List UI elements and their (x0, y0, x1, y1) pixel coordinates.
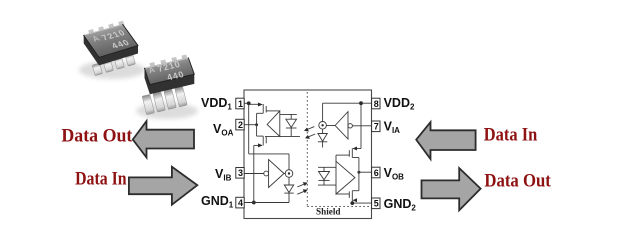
wire bottom rail (265, 135, 300, 137)
wire apex to cs (326, 125, 335, 127)
buffer U4 input bubble (264, 171, 269, 176)
wire VDD1 to cs (249, 153, 289, 155)
photodiode D1 top rail (280, 113, 297, 115)
wire VDD to PMOS source (357, 148, 361, 150)
NMOS Q4 source arrow (353, 198, 358, 202)
wire gate to amp top (336, 154, 349, 156)
svg-text:8: 8 (374, 99, 379, 109)
arrow right-top (points left) (416, 122, 475, 159)
LED D3 cathode bar (284, 192, 293, 194)
wire cs to LED (288, 177, 290, 185)
PMOS Q3 gate bar (348, 150, 350, 157)
NMOS Q4 gate bar (348, 191, 350, 198)
wire apex to cs (284, 173, 285, 175)
junction node pin8 (359, 101, 363, 105)
svg-text:Data In: Data In (75, 169, 127, 190)
wire gate to amp top (266, 110, 280, 112)
shield dashed line (307, 206, 370, 208)
pin 3 box (236, 168, 244, 179)
pin 8 box (372, 98, 380, 109)
IC photo package U2 (bottom chip) (136, 54, 198, 119)
junction node pin5 (350, 201, 354, 205)
photodiode D4 triangle (319, 172, 330, 180)
svg-text:Data Out: Data Out (484, 171, 551, 192)
wire LED down (322, 142, 324, 148)
light arrow B1 (297, 184, 305, 187)
svg-text:Data In: Data In (484, 125, 538, 146)
pin 6 box (372, 167, 380, 178)
wire pin3 (244, 173, 264, 175)
pin 7 box (372, 121, 380, 132)
channel A input stage (top-right) (318, 103, 372, 148)
wire LED to gnd rail (288, 193, 290, 202)
PMOS Q3 channel bar (351, 148, 353, 157)
wire VDD2 feed vertical (360, 103, 362, 148)
junction node gnd1 (252, 201, 256, 205)
wire pin2 VOA (244, 124, 257, 126)
svg-text:6: 6 (374, 168, 379, 178)
PMOS Q1 source arrow (258, 103, 263, 107)
buffer U3 (input A) (335, 112, 348, 139)
wire pin6 VOB (359, 171, 372, 173)
wire pin4 gnd rail (244, 202, 289, 204)
isolation barrier (dashed) (306, 92, 308, 207)
LED D3 triangle (284, 185, 293, 193)
wire gnd vertical (253, 145, 255, 202)
light arrow A1 (306, 127, 314, 130)
LED D2 cathode bar (318, 141, 327, 143)
pin 5 box (372, 198, 380, 209)
wire pin8 rail (323, 102, 372, 104)
svg-text:5: 5 (374, 199, 379, 209)
wire source to pin5 (351, 200, 353, 203)
wire pin7 (352, 125, 371, 127)
PMOS Q3 source arrow (353, 147, 358, 151)
buffer U3 input bubble (348, 124, 352, 128)
wire output node vertical (256, 113, 258, 136)
buffer U4 (input B) (269, 160, 284, 188)
current source I2 (285, 170, 293, 178)
wire output node vertical (358, 158, 360, 191)
svg-text:Data Out: Data Out (61, 126, 133, 147)
wire drain bottom (257, 135, 264, 137)
arrow right-bottom (points right) (422, 168, 481, 210)
wire stage gnd rail (254, 144, 258, 146)
IC body outline (244, 90, 372, 219)
PMOS Q1 channel bar (262, 104, 264, 113)
svg-text:2: 2 (238, 120, 243, 130)
wire pin1 (244, 102, 249, 104)
light arrow A2 (307, 134, 315, 137)
op-amp A1 (left receiver) (267, 111, 280, 136)
junction node out A (255, 123, 258, 126)
channel B input stage (bottom-left) (244, 154, 294, 203)
photodiode D4 top rail (318, 166, 336, 168)
svg-text:3: 3 (238, 168, 243, 178)
svg-text:1: 1 (238, 99, 243, 109)
PMOS Q1 gate bar (265, 106, 267, 113)
wire drain bottom (352, 190, 359, 192)
current source I1 dot (321, 124, 323, 126)
NMOS Q2 gate bar (265, 137, 267, 144)
LED D2 triangle (318, 134, 327, 142)
NMOS Q4 channel bar (351, 191, 353, 200)
svg-text:7: 7 (374, 122, 379, 132)
NMOS Q2 source arrow (258, 143, 263, 147)
wire cs to LED (322, 129, 324, 133)
channel B output stage (bottom-right) (318, 148, 372, 203)
arrow left-bottom (points right) (129, 167, 197, 205)
svg-text:4: 4 (238, 198, 243, 208)
wire gate to amp bottom (336, 193, 349, 195)
junction node pin1 (247, 101, 251, 105)
light arrow B2 (297, 191, 305, 194)
wire drain top (352, 157, 359, 159)
photodiode D1 triangle (286, 119, 297, 127)
op-amp A2 (right receiver) (336, 161, 355, 194)
junction node out B (357, 171, 360, 174)
pin 2 box (236, 119, 244, 130)
wire VDD1 feed vertical (248, 103, 250, 154)
current source I2 dot (288, 172, 290, 174)
pin 1 box (236, 98, 244, 109)
arrow left-top (points left) (133, 121, 194, 157)
wire to current source (322, 103, 324, 121)
internal schematic, channel A output stage (top-left) (244, 103, 300, 202)
NMOS Q2 channel bar (262, 136, 264, 145)
wire drain top (257, 112, 264, 114)
wire VDD to PMOS source (249, 103, 259, 105)
svg-text:Shield: Shield (316, 206, 341, 216)
pin 4 box (236, 197, 244, 208)
current source I1 (319, 122, 327, 130)
IC photo package U1 (top chip) (79, 21, 145, 79)
photodiode D4 bottom rail (318, 184, 336, 186)
